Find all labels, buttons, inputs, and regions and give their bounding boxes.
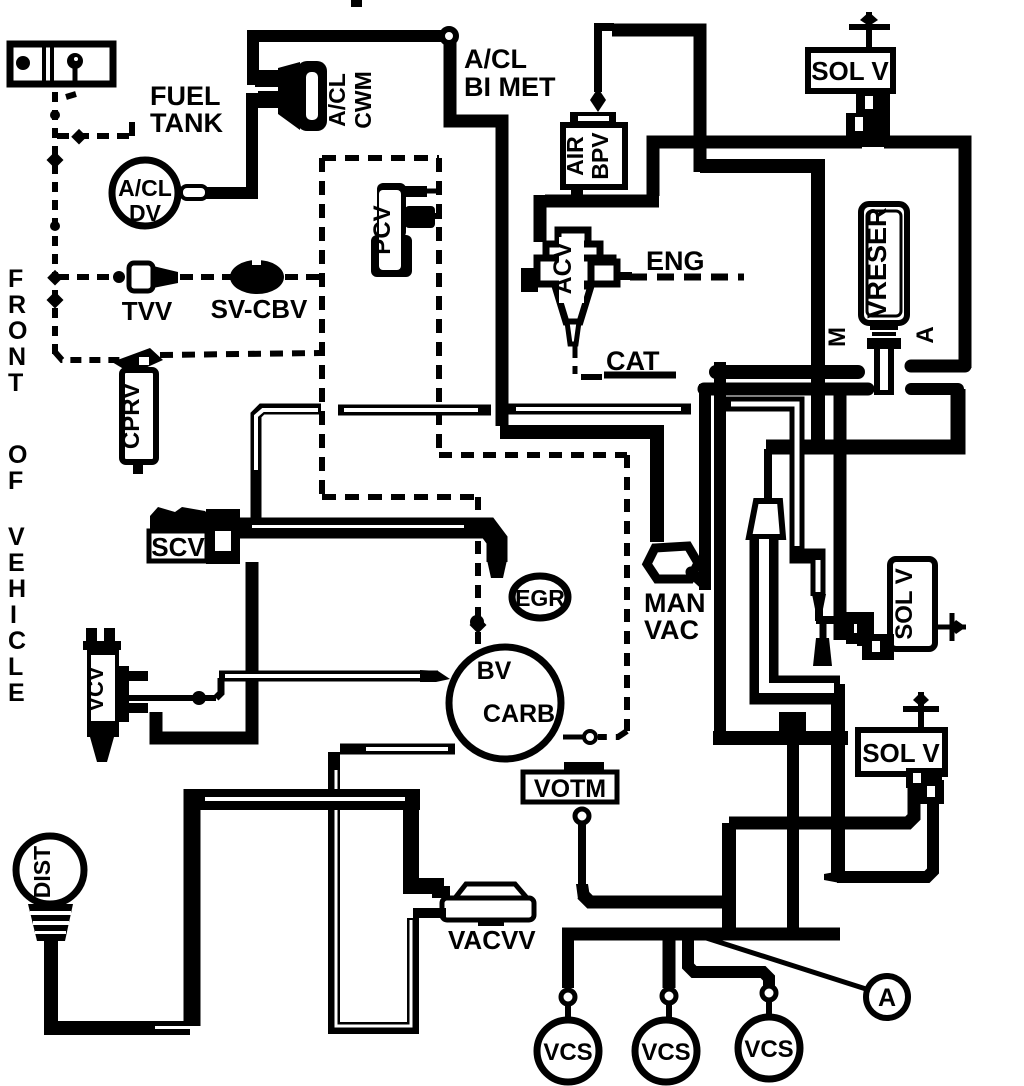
wire VRESER A arm right pair [911,360,965,373]
svg-text:VCS: VCS [641,1039,690,1066]
wire DIST hose down and right [51,940,190,1028]
wire dashed main from fuel tank box down [52,92,58,358]
svg-text:VCS: VCS [744,1036,793,1063]
wire SOL V top connector right to tall right vertical [884,142,965,368]
EGR valve [512,576,568,618]
svg-text:SOL V: SOL V [862,738,940,768]
label ACV [559,237,584,303]
svg-text:DV: DV [129,200,162,226]
wire vertical a to VCS manifold [787,738,799,934]
svg-text:FUEL: FUEL [150,81,221,111]
svg-text:C: C [8,627,26,655]
svg-text:ENG: ENG [646,246,705,276]
wire VOTM thin line down [578,823,586,886]
svg-text:A/CL: A/CL [464,44,527,74]
wire dashed ACV to CAT [573,346,578,374]
node ring below VOTM [575,809,589,823]
node dot above BV CARB [470,615,484,629]
SOL V top connector [846,91,890,147]
wire ring down to CAT hose vertical [450,40,502,426]
svg-text:H: H [8,575,26,603]
wire V1a from M arm down to MAN VAC nozzle [699,384,711,590]
wire dashed PCV box to EGR column [475,497,481,617]
svg-text:A/CL: A/CL [324,73,350,127]
A/CL DV circle [112,160,207,226]
svg-text:MAN: MAN [644,588,706,618]
SCV valve [149,507,240,564]
svg-text:V: V [8,523,25,551]
wire VOTM elbow to junction horizontal [582,894,736,902]
BV CARB circle [449,647,561,759]
VCS circle 2 [635,1020,697,1082]
VACVV valve [413,884,534,926]
fuel tank sender box [10,44,113,84]
wire VCV thin line with junction dot [128,695,216,701]
svg-text:O: O [8,317,27,345]
svg-text:VOTM: VOTM [534,775,606,803]
wire dashed SV-CBV to PCV box [285,274,322,280]
svg-text:BPV: BPV [587,132,613,180]
svg-text:E: E [8,549,25,577]
wire lower-left hose to BV CARB [340,744,455,755]
SOL V mid box [890,559,966,649]
funnel bell [749,501,783,537]
wire hose A elbow [653,142,862,196]
wire dashed fuel tank pointer [57,133,130,139]
wire dashed ENG line [630,274,744,281]
svg-text:VRESER: VRESER [862,207,892,318]
wire diagonal pointer to node A [700,936,866,989]
PCV valve [371,183,442,277]
wire dashed TVV to SV-CBV [180,274,231,280]
wire CAT hose to MAN VAC [500,432,657,542]
VRESER T stem [874,349,894,395]
PCV dashed box [322,158,478,497]
wire VRESER M arm left pair [716,365,858,379]
arrowhead into AIR BPV [590,88,606,112]
DIST distributor [16,836,84,941]
svg-text:L: L [8,653,23,681]
svg-text:F: F [8,265,23,293]
wire A/CL CWM upper port to top line and ring [253,36,444,79]
CPRV valve [112,348,163,474]
svg-text:CARB: CARB [483,700,555,728]
node junction diamonds on dashed main [50,110,60,120]
svg-text:DIST: DIST [29,846,55,898]
VCS circle 3 [738,1017,800,1079]
svg-text:SOL V: SOL V [811,56,889,86]
wire top elbow to AIR BPV arrow [612,30,700,172]
wire hose W down to SOL V mid connector [834,393,847,640]
svg-text:VAC: VAC [644,615,699,645]
SOL V bottom connector [906,768,944,804]
AIR BPV valve [563,112,625,187]
wire thin cone leg down to funnel elbow [820,620,827,640]
svg-text:VACVV: VACVV [448,925,536,955]
svg-text:M: M [824,327,851,347]
wire elbow E1 to vertical b [713,731,848,745]
svg-text:CPRV: CPRV [118,383,145,449]
svg-text:O: O [8,441,27,469]
wire VCS3 branch [688,940,769,986]
wire big bar right leg to VACVV [411,808,444,886]
SOL V top box [808,12,893,91]
SOL V mid connector [846,612,894,660]
node junction lump above E1 [779,712,806,738]
ACV valve [521,230,632,344]
svg-text:N: N [8,343,26,371]
wire white-cored tube from V1b right [724,404,797,548]
VCS circle 1 [537,1020,599,1082]
wire hose P from SOL V bottom connector [729,786,914,823]
wire SCV lower port down and left to VCV [156,562,252,738]
svg-text:CAT: CAT [606,346,660,376]
SOL V bottom box [858,692,945,774]
svg-text:F: F [8,467,23,495]
big bar hose [184,789,420,810]
VRESER reservoir [861,204,907,349]
svg-text:AIR: AIR [562,136,588,176]
label FRONT OF VEHICLE [8,265,27,707]
svg-text:SCV: SCV [151,532,205,562]
wire V1b from M arm down to elbow E1 [714,362,726,740]
svg-text:CWM: CWM [350,71,376,128]
wire funnel tube outlined down and elbow right [764,535,840,690]
svg-text:VCV: VCV [83,666,108,712]
SV-CBV check valve [230,260,284,294]
svg-text:EGR: EGR [515,585,565,611]
svg-text:A: A [878,984,896,1012]
wire thin junction line to SOL V mid connector [815,604,823,621]
svg-text:BV: BV [477,657,512,685]
wire dashed lower loop to CPRV and PCV box [55,352,120,360]
wire A/CL DV to A/CL CWM lower port [205,99,266,193]
svg-text:E: E [8,679,25,707]
VOTM box [523,762,617,802]
wire VCS2 stub [663,940,676,988]
wire vertical b down through hose P to Q2 [831,684,845,877]
svg-text:VCS: VCS [543,1039,592,1066]
wire hose B from elbow to VRESER arm column [700,166,818,452]
svg-text:TANK: TANK [150,108,223,138]
svg-text:T: T [8,369,23,397]
wire dashed PCV box to BV CARB right port [439,452,627,458]
node A circle [866,976,908,1018]
svg-text:ACV: ACV [549,241,577,294]
wire funnel neck from hose S [764,449,772,505]
wire U tube down from lower-left hose [334,752,413,1028]
wire VCS manifold [562,928,840,941]
wire hose S from A arm down and left [766,389,958,447]
svg-text:SV-CBV: SV-CBV [211,294,308,324]
stray mark top [351,0,362,7]
wire thin hose 2 [338,405,491,416]
svg-text:SOL V: SOL V [891,568,918,640]
wire thin hose 3 from CAT hose vertical [506,404,691,415]
CAT underline [604,372,676,379]
wire P corner down to VCS manifold [722,823,736,934]
wire thin hose 1 from SCV bar up-left elbow [256,409,321,522]
svg-text:A/CL: A/CL [118,175,172,201]
svg-text:A: A [912,326,939,343]
VCV valve [83,628,148,762]
svg-text:PCV: PCV [369,205,396,254]
wire dashed to TVV [57,274,118,280]
wire big bar left leg down to DIST hose corner [184,789,201,1027]
wire SCV thick bar to EGR [236,528,497,562]
node ring at BV CARB right port [584,731,596,743]
wire thin hose VCV to BV CARB [219,671,438,682]
A/CL CWM horn [255,61,327,131]
svg-text:BI MET: BI MET [464,72,556,102]
wire VCS1 stub [562,930,574,988]
svg-text:I: I [10,601,17,629]
node ring junction [442,29,456,43]
MAN VAC hexagon [647,546,703,583]
wire AIR BPV bottom elbow to ACV [545,184,577,201]
svg-text:TVV: TVV [122,296,173,326]
wire hose Q2 from SOL V bottom down and left nozzle [837,800,933,877]
svg-text:R: R [8,291,26,319]
TVV valve [129,263,178,291]
